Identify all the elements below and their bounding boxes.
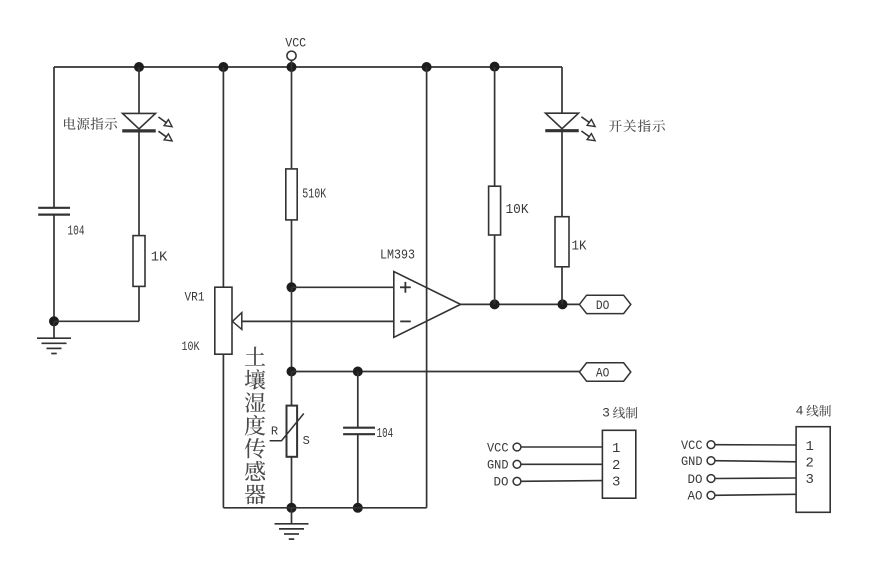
wire non-inverting node to op-amp xyxy=(292,286,394,288)
wire VCC to R1 xyxy=(291,60,293,169)
svg-text:AO: AO xyxy=(596,366,610,381)
label 电源指示 xyxy=(64,117,117,130)
svg-text:GND: GND xyxy=(681,455,703,469)
resistor R1 510K xyxy=(286,169,327,220)
node non-inverting input xyxy=(287,282,297,292)
node bottom ground junction xyxy=(287,503,297,513)
wire R3 to output xyxy=(494,235,496,304)
svg-text:GND: GND xyxy=(487,459,509,473)
svg-text:1: 1 xyxy=(806,439,814,455)
wire LED D2 to R4 xyxy=(561,131,563,217)
wire AO line xyxy=(292,371,580,373)
svg-text:VCC: VCC xyxy=(681,439,703,453)
svg-text:LM393: LM393 xyxy=(380,247,415,263)
ground bottom xyxy=(275,508,309,539)
svg-text:4: 4 xyxy=(796,404,804,419)
svg-text:AO: AO xyxy=(688,490,703,504)
svg-text:510K: 510K xyxy=(302,187,326,203)
svg-text:1K: 1K xyxy=(151,250,168,266)
connector J1 3-wire xyxy=(602,406,637,499)
LED D1 power indicator xyxy=(122,113,172,140)
wire 1K to ground junction xyxy=(54,320,139,322)
node AO-cap junction xyxy=(353,367,363,377)
svg-text:DO: DO xyxy=(596,298,610,313)
soil probe RS (sensor element) xyxy=(270,406,310,457)
wire sensor to bottom rail xyxy=(291,457,293,508)
wire C2 to bottom rail xyxy=(357,434,359,508)
node sensor/AO junction xyxy=(287,367,297,377)
op-amp U1 LM393 xyxy=(380,247,461,337)
wire op-amp supply column xyxy=(426,67,428,508)
power flag VCC xyxy=(285,35,306,60)
connector J1 pins xyxy=(487,441,602,489)
wire sensor node down xyxy=(291,372,293,406)
LED D2 switch indicator xyxy=(545,113,595,141)
svg-text:2: 2 xyxy=(806,456,814,472)
connector J2 4-wire xyxy=(796,404,831,513)
capacitor C2 104 xyxy=(343,426,393,442)
wire rail to VR1 xyxy=(222,67,224,287)
svg-text:104: 104 xyxy=(377,426,394,442)
connector J2 pins xyxy=(681,439,796,504)
wire LED D1 to R2 xyxy=(138,131,140,236)
capacitor C1 104 xyxy=(38,208,84,240)
wire left column lower xyxy=(53,215,55,322)
wire AO node to C2 xyxy=(357,372,359,428)
wire VR1 wiper to op-amp inverting input xyxy=(242,320,394,322)
wire VR1 bottom to bottom rail xyxy=(222,354,224,508)
resistor R2 1K xyxy=(133,236,168,287)
resistor R4 1K xyxy=(555,217,587,267)
svg-text:10K: 10K xyxy=(506,202,530,218)
wire rail to LED D1 xyxy=(138,67,140,113)
node VCC junction xyxy=(287,62,297,72)
svg-text:3: 3 xyxy=(806,472,814,488)
svg-text:DO: DO xyxy=(688,473,703,487)
wire op-amp output xyxy=(461,303,580,305)
node output-R10K junction xyxy=(490,299,500,309)
resistor R3 10K xyxy=(489,186,529,235)
wire VCC top rail xyxy=(54,66,562,68)
wire bottom rail xyxy=(223,507,426,509)
wire R1 to non-inverting node xyxy=(291,220,293,287)
svg-text:2: 2 xyxy=(612,458,620,474)
wire R4 to output xyxy=(561,267,563,305)
svg-text:3: 3 xyxy=(612,474,620,490)
node output-R1K junction xyxy=(558,299,568,309)
wire left column upper xyxy=(53,67,55,208)
ground left xyxy=(37,321,71,353)
node rail-VR1 xyxy=(218,62,228,72)
svg-text:DO: DO xyxy=(494,476,509,490)
port AO xyxy=(579,363,630,381)
svg-text:10K: 10K xyxy=(182,339,200,354)
svg-text:3: 3 xyxy=(602,406,610,421)
label 土壤湿度传感器 xyxy=(245,347,266,505)
svg-text:104: 104 xyxy=(68,224,85,240)
wire middle column down to sensor node xyxy=(291,287,293,371)
svg-text:VCC: VCC xyxy=(487,441,509,455)
wire rail to R3 xyxy=(494,67,496,186)
port DO xyxy=(579,295,630,313)
node C2 bottom junction xyxy=(353,503,363,513)
wire rail corner to LED D2 xyxy=(561,67,563,113)
potentiometer VR1 10K xyxy=(182,287,242,354)
wire R2 to ground junction xyxy=(138,286,140,321)
node rail-opamp supply xyxy=(422,62,432,72)
label 开关指示 xyxy=(609,120,665,133)
svg-text:1: 1 xyxy=(612,441,620,457)
svg-text:VR1: VR1 xyxy=(185,290,205,305)
svg-text:1K: 1K xyxy=(572,238,588,254)
svg-text:R: R xyxy=(271,424,278,438)
node rail-LED1 xyxy=(134,62,144,72)
node left ground junction xyxy=(49,316,59,326)
svg-text:VCC: VCC xyxy=(285,35,306,50)
node rail-R10K xyxy=(490,62,500,72)
svg-text:S: S xyxy=(303,434,310,448)
